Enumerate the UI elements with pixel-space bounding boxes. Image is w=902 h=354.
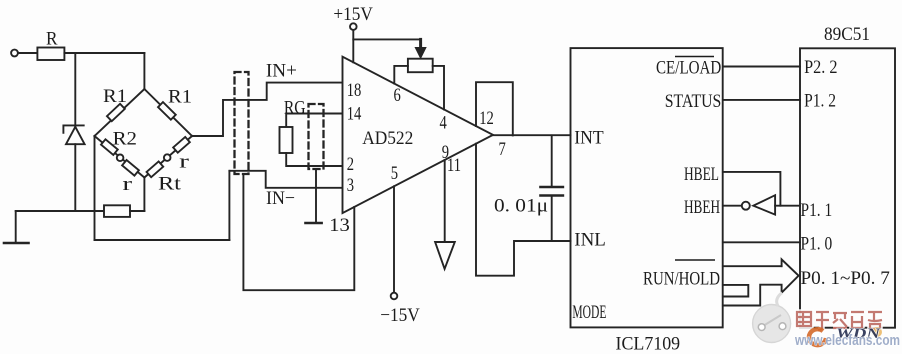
svg-text:ICL7109: ICL7109	[616, 334, 681, 354]
wire CE/LOAD to P2.2	[723, 66, 800, 68]
inverter U3	[742, 195, 775, 214]
svg-text:89C51: 89C51	[824, 24, 870, 45]
watermark logo circle	[753, 293, 791, 343]
wire	[130, 210, 144, 212]
svg-text:P1. 2: P1. 2	[804, 91, 836, 112]
bus arrow to P0.1~P0.7	[723, 259, 799, 305]
svg-text:HBEL: HBEL	[684, 164, 719, 185]
wire +15V	[352, 30, 354, 62]
svg-text:0. 01μ: 0. 01μ	[494, 196, 548, 217]
+15V terminal	[350, 23, 357, 30]
svg-text:5: 5	[391, 163, 398, 184]
wire INL loop	[476, 144, 571, 276]
svg-text:4: 4	[440, 113, 448, 134]
ground	[4, 211, 29, 243]
wire output to INT	[493, 134, 571, 136]
wire HBEH to inverter	[723, 205, 742, 207]
wire HBEL	[723, 172, 781, 206]
wire bridge bottom	[143, 178, 145, 212]
svg-text:−15V: −15V	[380, 305, 420, 326]
resistor R	[37, 48, 64, 61]
wire loopback U	[723, 285, 748, 297]
svg-text:www.elecfans.com: www.elecfans.com	[794, 332, 900, 349]
balance resistor	[104, 205, 130, 217]
svg-text:+15V: +15V	[333, 4, 373, 25]
svg-text:12: 12	[479, 108, 494, 129]
svg-text:11: 11	[447, 155, 461, 176]
svg-text:18: 18	[347, 80, 362, 101]
capacitor C1	[540, 135, 563, 241]
resistor R2	[101, 139, 118, 155]
svg-text:13: 13	[329, 215, 350, 236]
shielded cable 2	[309, 104, 324, 169]
op-amp U1 AD522	[343, 57, 494, 213]
resistor r lower-left	[122, 160, 139, 176]
svg-text:6: 6	[394, 85, 401, 106]
overline LOAD	[675, 56, 714, 58]
bridge arm top-right	[144, 89, 192, 136]
svg-text:R1: R1	[168, 87, 192, 108]
svg-text:3: 3	[347, 175, 354, 196]
bridge arm bottom-right	[144, 136, 192, 178]
wire bridge top feed	[143, 53, 145, 89]
svg-text:7: 7	[499, 139, 506, 160]
wire	[64, 52, 144, 54]
node circle right arm	[164, 154, 171, 161]
svg-text:P2. 2: P2. 2	[804, 57, 837, 78]
wire riser to IN-	[228, 171, 230, 240]
wire STATUS to P1.2	[723, 99, 800, 101]
svg-text:R1: R1	[103, 86, 127, 107]
svg-text:r: r	[179, 152, 190, 173]
analog common arrow	[435, 242, 455, 269]
wire pot left to pin6	[394, 66, 408, 84]
svg-text:2: 2	[347, 154, 354, 175]
watermark swirl	[809, 329, 826, 345]
svg-text:P0. 1~P0. 7: P0. 1~P0. 7	[801, 268, 890, 289]
wire pin13 guard loop	[243, 176, 354, 291]
bridge arm bottom-left	[95, 136, 145, 178]
svg-text:INT: INT	[574, 128, 604, 149]
wire to P1.0	[723, 241, 800, 243]
resistor R1 right	[158, 102, 176, 120]
watermark chinese text	[797, 312, 882, 330]
IC U4 89C51	[800, 48, 895, 327]
wire to pot wiper	[353, 38, 420, 40]
IC U2 ICL7109	[571, 48, 723, 327]
potentiometer	[408, 59, 433, 72]
svg-text:CE/LOAD: CE/LOAD	[656, 58, 721, 79]
svg-text:Rt: Rt	[158, 174, 182, 195]
output hat wire	[476, 82, 513, 135]
svg-text:IN+: IN+	[266, 61, 297, 82]
wire IN- path	[229, 171, 342, 188]
svg-text:R2: R2	[113, 129, 137, 150]
svg-text:R: R	[46, 29, 58, 50]
svg-text:AD522: AD522	[362, 128, 413, 149]
wire pot right to pin4	[433, 66, 444, 110]
watermark dot	[872, 327, 882, 337]
node circle left arm	[117, 155, 124, 162]
svg-text:MODE: MODE	[572, 302, 606, 323]
bridge arm top-left	[95, 89, 145, 136]
shielded cable 1	[235, 72, 249, 174]
input terminal	[11, 50, 18, 57]
wire IN+ path	[192, 83, 343, 136]
wire pin5 to -15V	[393, 186, 395, 292]
svg-text:P1. 1: P1. 1	[801, 200, 833, 221]
resistor Rt	[147, 161, 164, 177]
resistor r upper-right arm	[173, 137, 190, 153]
wire pin14	[286, 114, 342, 128]
svg-text:STATUS: STATUS	[665, 91, 722, 112]
svg-text:RUN/HOLD: RUN/HOLD	[643, 269, 720, 290]
zener diode D1	[63, 53, 84, 211]
resistor R1 left	[107, 104, 125, 121]
-15V terminal	[391, 293, 398, 300]
svg-text:P1. 0: P1. 0	[801, 234, 833, 255]
svg-text:HBEH: HBEH	[684, 197, 720, 218]
svg-text:IN−: IN−	[266, 188, 295, 209]
wire left node down	[94, 136, 96, 240]
svg-text:INL: INL	[574, 230, 606, 251]
watermark	[753, 293, 900, 349]
svg-text:RG: RG	[284, 98, 306, 119]
wire	[18, 52, 37, 54]
resistor RG	[280, 127, 293, 153]
wire pin2	[286, 153, 342, 166]
pin13 bar	[305, 222, 321, 224]
overline HOLD	[675, 259, 715, 261]
svg-text:r: r	[122, 174, 133, 195]
wire pin9/11	[444, 160, 446, 242]
pot wiper arrow	[416, 39, 425, 57]
svg-text:14: 14	[347, 104, 362, 125]
wire lower rail	[95, 239, 230, 241]
wire shield to pin13	[315, 169, 317, 223]
wire inverter to P1.1	[775, 205, 800, 207]
bottom rail wire	[16, 210, 104, 212]
